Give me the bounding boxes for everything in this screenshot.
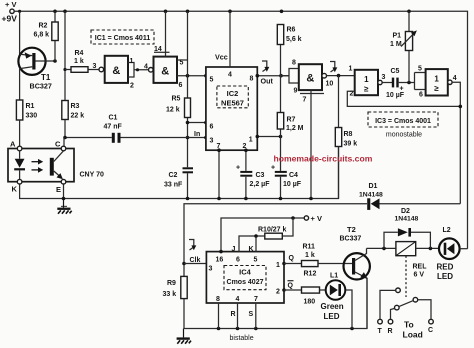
svg-text:1: 1: [349, 65, 353, 72]
svg-text:+: +: [271, 165, 275, 172]
svg-text:C2: C2: [169, 172, 178, 179]
svg-text:E: E: [56, 185, 61, 194]
svg-text:R8: R8: [344, 131, 353, 138]
svg-text:C: C: [428, 327, 433, 334]
svg-text:C1: C1: [109, 115, 118, 122]
svg-text:LED: LED: [437, 272, 453, 281]
svg-text:CNY 70: CNY 70: [80, 172, 104, 179]
svg-text:3: 3: [93, 63, 97, 70]
svg-text:5: 5: [210, 77, 214, 84]
svg-text:bistable: bistable: [230, 335, 254, 342]
svg-text:2: 2: [130, 83, 134, 90]
svg-text:+9V: +9V: [2, 14, 18, 24]
svg-text:C: C: [55, 140, 61, 149]
svg-text:K: K: [249, 246, 254, 253]
svg-text:IC3 = Cmos 4001: IC3 = Cmos 4001: [375, 118, 431, 125]
svg-text:1: 1: [276, 262, 280, 269]
svg-text:180: 180: [304, 299, 316, 306]
svg-text:R: R: [231, 311, 236, 318]
svg-text:6: 6: [419, 92, 423, 99]
svg-text:1: 1: [434, 75, 439, 84]
svg-text:1: 1: [364, 75, 369, 84]
svg-text:1,2 M: 1,2 M: [286, 125, 304, 132]
svg-text:R3: R3: [71, 103, 80, 110]
svg-text:Load: Load: [403, 330, 423, 340]
svg-text:&: &: [161, 65, 169, 77]
svg-text:8: 8: [216, 296, 220, 303]
svg-text:7: 7: [303, 97, 307, 104]
svg-text:Out: Out: [261, 77, 274, 86]
svg-text:6: 6: [210, 124, 214, 131]
svg-text:1 k: 1 k: [74, 58, 84, 65]
svg-text:In: In: [194, 131, 200, 138]
svg-text:J: J: [232, 246, 236, 253]
svg-text:S: S: [249, 311, 254, 318]
svg-text:3: 3: [210, 138, 214, 145]
svg-text:4: 4: [453, 75, 457, 82]
svg-text:5: 5: [180, 60, 184, 67]
svg-text:3: 3: [382, 74, 386, 81]
svg-text:2: 2: [276, 289, 280, 296]
svg-text:To: To: [404, 320, 414, 330]
svg-text:BC327: BC327: [30, 82, 52, 91]
svg-text:≥: ≥: [434, 84, 439, 93]
svg-text:330: 330: [26, 113, 38, 120]
svg-text:2,2 µF: 2,2 µF: [250, 181, 271, 188]
svg-text:16: 16: [216, 257, 224, 264]
svg-text:5: 5: [418, 66, 422, 73]
svg-text:1: 1: [130, 58, 134, 65]
svg-text:K: K: [12, 185, 18, 194]
svg-text:A: A: [10, 140, 16, 149]
svg-text:39 k: 39 k: [344, 141, 358, 148]
svg-text:L2: L2: [443, 227, 451, 234]
svg-text:≥: ≥: [364, 85, 369, 94]
svg-text:10 µF: 10 µF: [386, 92, 405, 99]
svg-text:R2: R2: [39, 23, 48, 30]
svg-text:1 k: 1 k: [305, 252, 315, 259]
svg-text:R: R: [388, 328, 393, 335]
svg-text:1: 1: [249, 137, 253, 144]
svg-text:5: 5: [254, 257, 258, 264]
svg-text:D2: D2: [401, 208, 410, 215]
svg-text:+ V: + V: [5, 0, 16, 9]
svg-text:4: 4: [236, 296, 240, 303]
svg-text:+: +: [236, 165, 240, 172]
svg-text:R10/27 k: R10/27 k: [258, 227, 287, 234]
svg-text:5,6 k: 5,6 k: [286, 36, 302, 43]
svg-text:REL: REL: [413, 264, 428, 271]
svg-text:R11: R11: [303, 244, 316, 251]
svg-text:monostable: monostable: [386, 132, 422, 139]
svg-text:L1: L1: [330, 273, 338, 280]
svg-text:R4: R4: [75, 50, 84, 57]
svg-text:4: 4: [144, 63, 148, 70]
svg-text:12 k: 12 k: [166, 107, 180, 114]
svg-text:C5: C5: [391, 68, 400, 75]
svg-text:RED: RED: [437, 263, 454, 272]
svg-text:47 nF: 47 nF: [104, 124, 123, 131]
svg-text:Vcc: Vcc: [215, 53, 228, 62]
svg-text:P1: P1: [393, 33, 402, 40]
svg-text:10 µF: 10 µF: [283, 181, 302, 188]
svg-text:R12: R12: [304, 271, 317, 278]
svg-text:Q: Q: [289, 255, 295, 262]
svg-text:T: T: [378, 328, 383, 335]
svg-text:IC2: IC2: [227, 89, 239, 98]
svg-text:10: 10: [326, 81, 334, 88]
svg-text:R9: R9: [167, 280, 176, 287]
svg-text:Cmos 4027: Cmos 4027: [227, 279, 264, 286]
svg-text:1 M: 1 M: [390, 41, 402, 48]
svg-text:6: 6: [236, 257, 240, 264]
svg-text:T2: T2: [347, 225, 356, 234]
svg-text:&: &: [112, 65, 120, 77]
svg-text:Green: Green: [321, 302, 344, 311]
svg-text:4: 4: [228, 72, 232, 79]
svg-text:33 k: 33 k: [163, 291, 177, 298]
svg-text:9: 9: [294, 88, 298, 95]
svg-text:LED: LED: [324, 312, 340, 321]
svg-text:R1: R1: [26, 103, 35, 110]
svg-text:3: 3: [209, 266, 213, 273]
svg-text:33 nF: 33 nF: [164, 182, 183, 189]
svg-text:IC4: IC4: [239, 268, 252, 277]
svg-text:NE567: NE567: [221, 98, 244, 107]
svg-text:6: 6: [179, 82, 183, 89]
svg-text:1N4148: 1N4148: [359, 192, 383, 199]
svg-text:8: 8: [250, 76, 254, 83]
svg-text:Q: Q: [288, 283, 294, 290]
svg-text:C3: C3: [256, 172, 265, 179]
svg-text:D1: D1: [369, 183, 378, 190]
svg-text:22 k: 22 k: [71, 113, 85, 120]
svg-text:R5: R5: [172, 96, 181, 103]
svg-text:R6: R6: [287, 27, 296, 34]
svg-text:1N4148: 1N4148: [395, 216, 419, 223]
svg-text:homemade-circuits.com: homemade-circuits.com: [274, 154, 373, 164]
svg-text:6,8 k: 6,8 k: [34, 32, 50, 39]
svg-text:6 V: 6 V: [414, 272, 425, 279]
svg-text:&: &: [306, 73, 314, 85]
svg-text:C4: C4: [289, 172, 298, 179]
svg-text:+ V: + V: [311, 214, 322, 223]
svg-text:BC337: BC337: [340, 236, 362, 243]
svg-text:8: 8: [292, 60, 296, 67]
svg-text:R7: R7: [287, 117, 296, 124]
svg-text:IC1 = Cmos 4011: IC1 = Cmos 4011: [95, 35, 151, 42]
svg-text:7: 7: [254, 296, 258, 303]
